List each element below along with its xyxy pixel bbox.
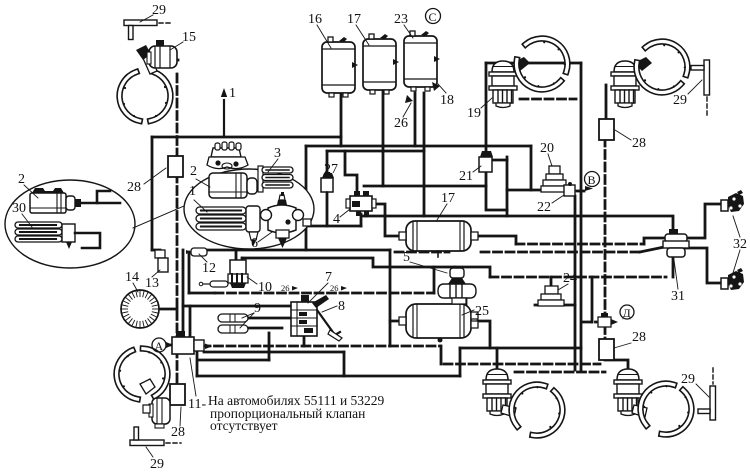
wire valve22 to trunk <box>577 190 584 193</box>
wire frame right riser <box>459 348 462 376</box>
wire riser into y190 <box>530 146 533 190</box>
flow marks 26 on pipe <box>281 283 339 293</box>
wire elbow into valve31 top <box>644 238 664 244</box>
component 13 <box>155 250 168 272</box>
wire valve8 down stem <box>303 336 306 346</box>
leader line between ellipses <box>133 206 184 228</box>
drum bottom-right-1 <box>503 376 572 444</box>
wire valve12 elbow down <box>188 252 191 293</box>
wire dashed right vertical <box>604 138 607 360</box>
svg-text:26: 26 <box>281 283 290 293</box>
T-symbol 29 top-right (vertical) <box>691 60 710 115</box>
fitting near D <box>598 313 618 327</box>
wire right trunk vertical <box>580 63 583 370</box>
svg-text:15: 15 <box>182 30 196 45</box>
wire riser x434 <box>433 267 436 293</box>
drum top-right-1 <box>508 30 576 99</box>
tank 17 <box>363 34 399 94</box>
valve 28 bottom-left <box>170 384 185 405</box>
tank 17 horizontal <box>399 221 478 257</box>
wire dashed y346 from valve11 <box>202 345 440 348</box>
svg-text:22: 22 <box>537 200 551 215</box>
wire tank23 drop pipe b <box>423 93 426 216</box>
drum bottom-left <box>113 345 172 402</box>
drum wheel top-left <box>120 72 171 121</box>
wire center horizontal B <box>327 150 424 153</box>
svg-text:30: 30 <box>12 201 26 216</box>
svg-text:16: 16 <box>308 12 322 27</box>
component 12 <box>186 248 207 256</box>
wire top frame horizontal <box>152 136 341 139</box>
svg-text:C: C <box>429 10 437 24</box>
wire tank17 drop pipe <box>382 91 385 186</box>
wire valve31 to coupling32 lower <box>684 248 722 283</box>
engine block above <box>207 142 248 169</box>
svg-text:21: 21 <box>459 169 473 184</box>
chamber 15 top-left <box>136 40 177 74</box>
wire valve4 left feed <box>345 151 357 192</box>
wire 31 bottom stem <box>672 256 675 277</box>
svg-text:28: 28 <box>632 136 646 151</box>
compressor 2 (center) <box>209 173 263 198</box>
component 10 <box>199 260 248 288</box>
wire y226 regulator feed <box>297 225 361 228</box>
svg-text:6: 6 <box>251 236 258 251</box>
svg-text:24: 24 <box>563 271 577 286</box>
compressor 2 (left ellipse) <box>30 188 81 213</box>
svg-text:29: 29 <box>150 457 164 472</box>
wire tank17h right elbow <box>478 236 516 244</box>
arrow 1 up <box>221 88 227 137</box>
wire tank25 right elbow <box>478 321 490 348</box>
valve 11 with A <box>166 331 204 354</box>
wire to tank25 left <box>390 320 406 323</box>
left ellipse callout <box>5 180 135 268</box>
coupling head 32 lower <box>721 268 744 290</box>
svg-text:12: 12 <box>202 261 216 276</box>
wire valve21 lower stem <box>486 172 507 210</box>
wire 9 to valve7 <box>248 317 291 320</box>
svg-text:19: 19 <box>467 106 481 121</box>
valve 22 <box>564 182 593 196</box>
wire valve21 right output <box>493 159 507 162</box>
tank 25 horizontal <box>399 304 478 343</box>
wire bundle y352 <box>204 351 344 354</box>
wire comp10 stems up <box>235 250 238 261</box>
svg-text:11-: 11- <box>188 397 206 412</box>
pressure regulator 6 <box>261 192 312 248</box>
T-symbol 29 bottom-right (vertical) <box>698 368 716 420</box>
wire comp5 stems <box>454 267 457 272</box>
chamber top-right-2 <box>611 57 652 108</box>
wire gauge link <box>159 308 177 311</box>
wire x306 drop <box>305 146 308 250</box>
valve 31 <box>663 229 689 257</box>
svg-text:27: 27 <box>324 162 338 177</box>
svg-text:А: А <box>155 339 164 353</box>
wire valve27 stem down <box>326 192 329 226</box>
wire frame bottom y376 <box>197 375 460 378</box>
radiator fins 3 <box>258 166 293 192</box>
wire chamber drop bottom right 1 <box>496 348 499 369</box>
center ellipse callout <box>184 142 314 249</box>
air dryer 19 + chamber top-right-1 <box>489 57 530 108</box>
wire y293 (marker line) <box>189 292 215 295</box>
wire y250 below ellipse <box>208 249 390 252</box>
circled D <box>620 305 634 320</box>
svg-text:28: 28 <box>171 425 185 440</box>
tank 23 <box>404 31 440 91</box>
valve 4 <box>346 191 376 216</box>
component 24 <box>538 286 564 306</box>
valve 28 top-right <box>599 119 614 140</box>
wire valve31 to coupling32 upper <box>684 204 722 238</box>
flow arrow after valve 11 <box>205 344 212 350</box>
circled B <box>585 172 600 188</box>
valve 20 <box>541 166 568 192</box>
wire dashed under top chambers <box>520 98 576 101</box>
wire dashed y293 <box>215 292 434 295</box>
wire riser x390 to tank25 <box>389 250 392 346</box>
svg-text:В: В <box>588 173 596 187</box>
wire y252 into valve31 <box>640 247 664 252</box>
valve 21 <box>479 151 493 172</box>
wire dashed y252 <box>395 251 449 254</box>
component 5 valve cluster <box>438 268 476 304</box>
wire bundle y360 <box>199 359 269 362</box>
T-symbol 29 top-left <box>124 20 157 40</box>
chamber bottom-left <box>140 379 170 428</box>
svg-text:29: 29 <box>152 3 166 18</box>
svg-text:29: 29 <box>673 93 687 108</box>
wire y258 below ellipse <box>243 258 490 277</box>
svg-text:26: 26 <box>394 116 408 131</box>
valve 28 left <box>168 156 183 177</box>
cylinders 9 <box>218 314 248 333</box>
coupling head 32 upper <box>721 190 744 212</box>
wire dashed D branch <box>583 321 596 324</box>
wire y348 right <box>460 347 581 350</box>
svg-text:1: 1 <box>189 184 196 199</box>
wire valve28tr stem <box>605 85 608 120</box>
svg-text:25: 25 <box>475 304 489 319</box>
wire y306 <box>183 305 291 308</box>
svg-text:20: 20 <box>540 141 554 156</box>
svg-text:4: 4 <box>333 212 340 227</box>
cooler fins 1 <box>196 206 260 246</box>
wire dashed y277 <box>490 276 666 279</box>
wire riser x344 <box>343 352 346 376</box>
wire left verticals below ellipse <box>182 250 185 338</box>
brake valve 7/8 with pedal <box>291 295 342 341</box>
wire riser x269 <box>268 333 271 360</box>
svg-text:2: 2 <box>190 164 197 179</box>
svg-text:9: 9 <box>254 301 261 316</box>
gauge 14 <box>121 290 159 328</box>
svg-text:17: 17 <box>347 12 361 27</box>
wire chamber15 stub <box>172 59 178 62</box>
svg-text:26: 26 <box>330 283 339 293</box>
svg-text:13: 13 <box>145 276 159 291</box>
drum top-right-2 <box>628 33 696 102</box>
svg-text:отсутствует: отсутствует <box>210 418 278 433</box>
valve 27 <box>321 173 334 196</box>
wire valve11 left stub to A <box>167 344 172 347</box>
svg-text:28: 28 <box>127 180 141 195</box>
wire comp24 stem and base <box>550 277 553 288</box>
wire tank16 drop pipe <box>340 93 343 146</box>
wire chamber connect bottom right 2 <box>605 360 628 369</box>
wire valve27 stem up <box>326 151 329 178</box>
circled A <box>152 338 166 353</box>
tank 16 <box>322 37 358 97</box>
svg-text:17: 17 <box>441 191 455 206</box>
svg-text:18: 18 <box>440 93 454 108</box>
wire y186 feed <box>364 185 486 188</box>
wire long y216 to valve31 <box>362 216 673 233</box>
wire valve21 top stem <box>485 146 488 156</box>
wire left vertical trunk <box>151 137 154 250</box>
circled C <box>426 9 441 25</box>
svg-text:31: 31 <box>671 289 685 304</box>
svg-text:1: 1 <box>229 86 236 101</box>
svg-text:28: 28 <box>632 330 646 345</box>
valve 28 bottom-right <box>599 339 614 360</box>
svg-text:23: 23 <box>394 12 408 27</box>
pedal lever <box>312 295 329 308</box>
drum bottom-right-2 <box>632 375 701 443</box>
wire top right trunk y63 <box>486 62 581 65</box>
note text <box>208 393 385 433</box>
svg-text:8: 8 <box>338 299 345 314</box>
wire dashed y372 <box>515 371 605 374</box>
T-symbol 29 bottom-left <box>130 427 181 446</box>
proportional valve 30 fins <box>15 222 62 242</box>
wire comp13 link <box>152 249 160 252</box>
chamber bottom-right-1 <box>483 369 516 417</box>
wire left riser of bundle <box>196 346 199 376</box>
wire valve4 left stud down <box>360 214 363 226</box>
svg-text:3: 3 <box>274 146 281 161</box>
wire dashed y244 <box>516 243 644 246</box>
wires in left ellipse <box>81 191 110 203</box>
svg-text:10: 10 <box>258 280 272 295</box>
wire vertical x507 <box>506 157 509 216</box>
svg-text:Д: Д <box>623 306 631 320</box>
wire tank23 drop pipe a <box>414 93 417 146</box>
wire y190 to valve22 <box>507 189 563 192</box>
svg-text:5: 5 <box>403 250 410 265</box>
wire valve4 bottom stem <box>365 214 368 216</box>
wire riser x592 <box>591 277 594 322</box>
wire center horizontal A <box>306 145 531 148</box>
chamber bottom-right-2 <box>614 369 647 417</box>
wire riser x441 <box>440 346 443 364</box>
wire dashed vertical left trunk <box>176 74 179 404</box>
wire feed vertical to dryer <box>485 63 488 146</box>
svg-text:14: 14 <box>125 270 139 285</box>
svg-text:29: 29 <box>681 372 695 387</box>
wire dashed y364 <box>444 363 600 366</box>
wire valve4 right output to tank17h <box>372 204 399 236</box>
